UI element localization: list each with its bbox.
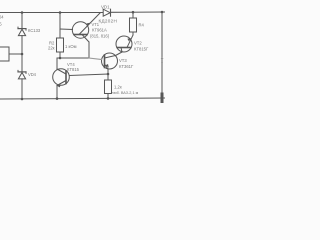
svg-text:1 кОм: 1 кОм	[65, 44, 77, 49]
svg-text:КД202Н: КД202Н	[99, 18, 118, 23]
svg-text:КТ361Г: КТ361Г	[119, 64, 134, 69]
svg-text:VT3: VT3	[119, 58, 127, 63]
svg-text:R4: R4	[139, 23, 145, 28]
svg-text:КТ815: КТ815	[67, 67, 80, 72]
svg-text:(815, 816): (815, 816)	[90, 34, 110, 39]
svg-text:VD1: VD1	[101, 4, 110, 9]
svg-text:КТ961А: КТ961А	[92, 28, 107, 33]
svg-text:22к: 22к	[48, 46, 55, 51]
svg-text:КТ815Г: КТ815Г	[134, 47, 149, 52]
svg-text:1,2к: 1,2к	[114, 85, 122, 90]
svg-text:~: ~	[161, 60, 163, 64]
svg-text:VT1: VT1	[92, 22, 100, 27]
svg-text:VD4: VD4	[28, 72, 37, 77]
svg-text:VT2: VT2	[134, 41, 142, 46]
svg-text:люб. ВАЗ-2,1 м: люб. ВАЗ-2,1 м	[112, 91, 139, 95]
svg-text:КС133: КС133	[28, 28, 41, 33]
